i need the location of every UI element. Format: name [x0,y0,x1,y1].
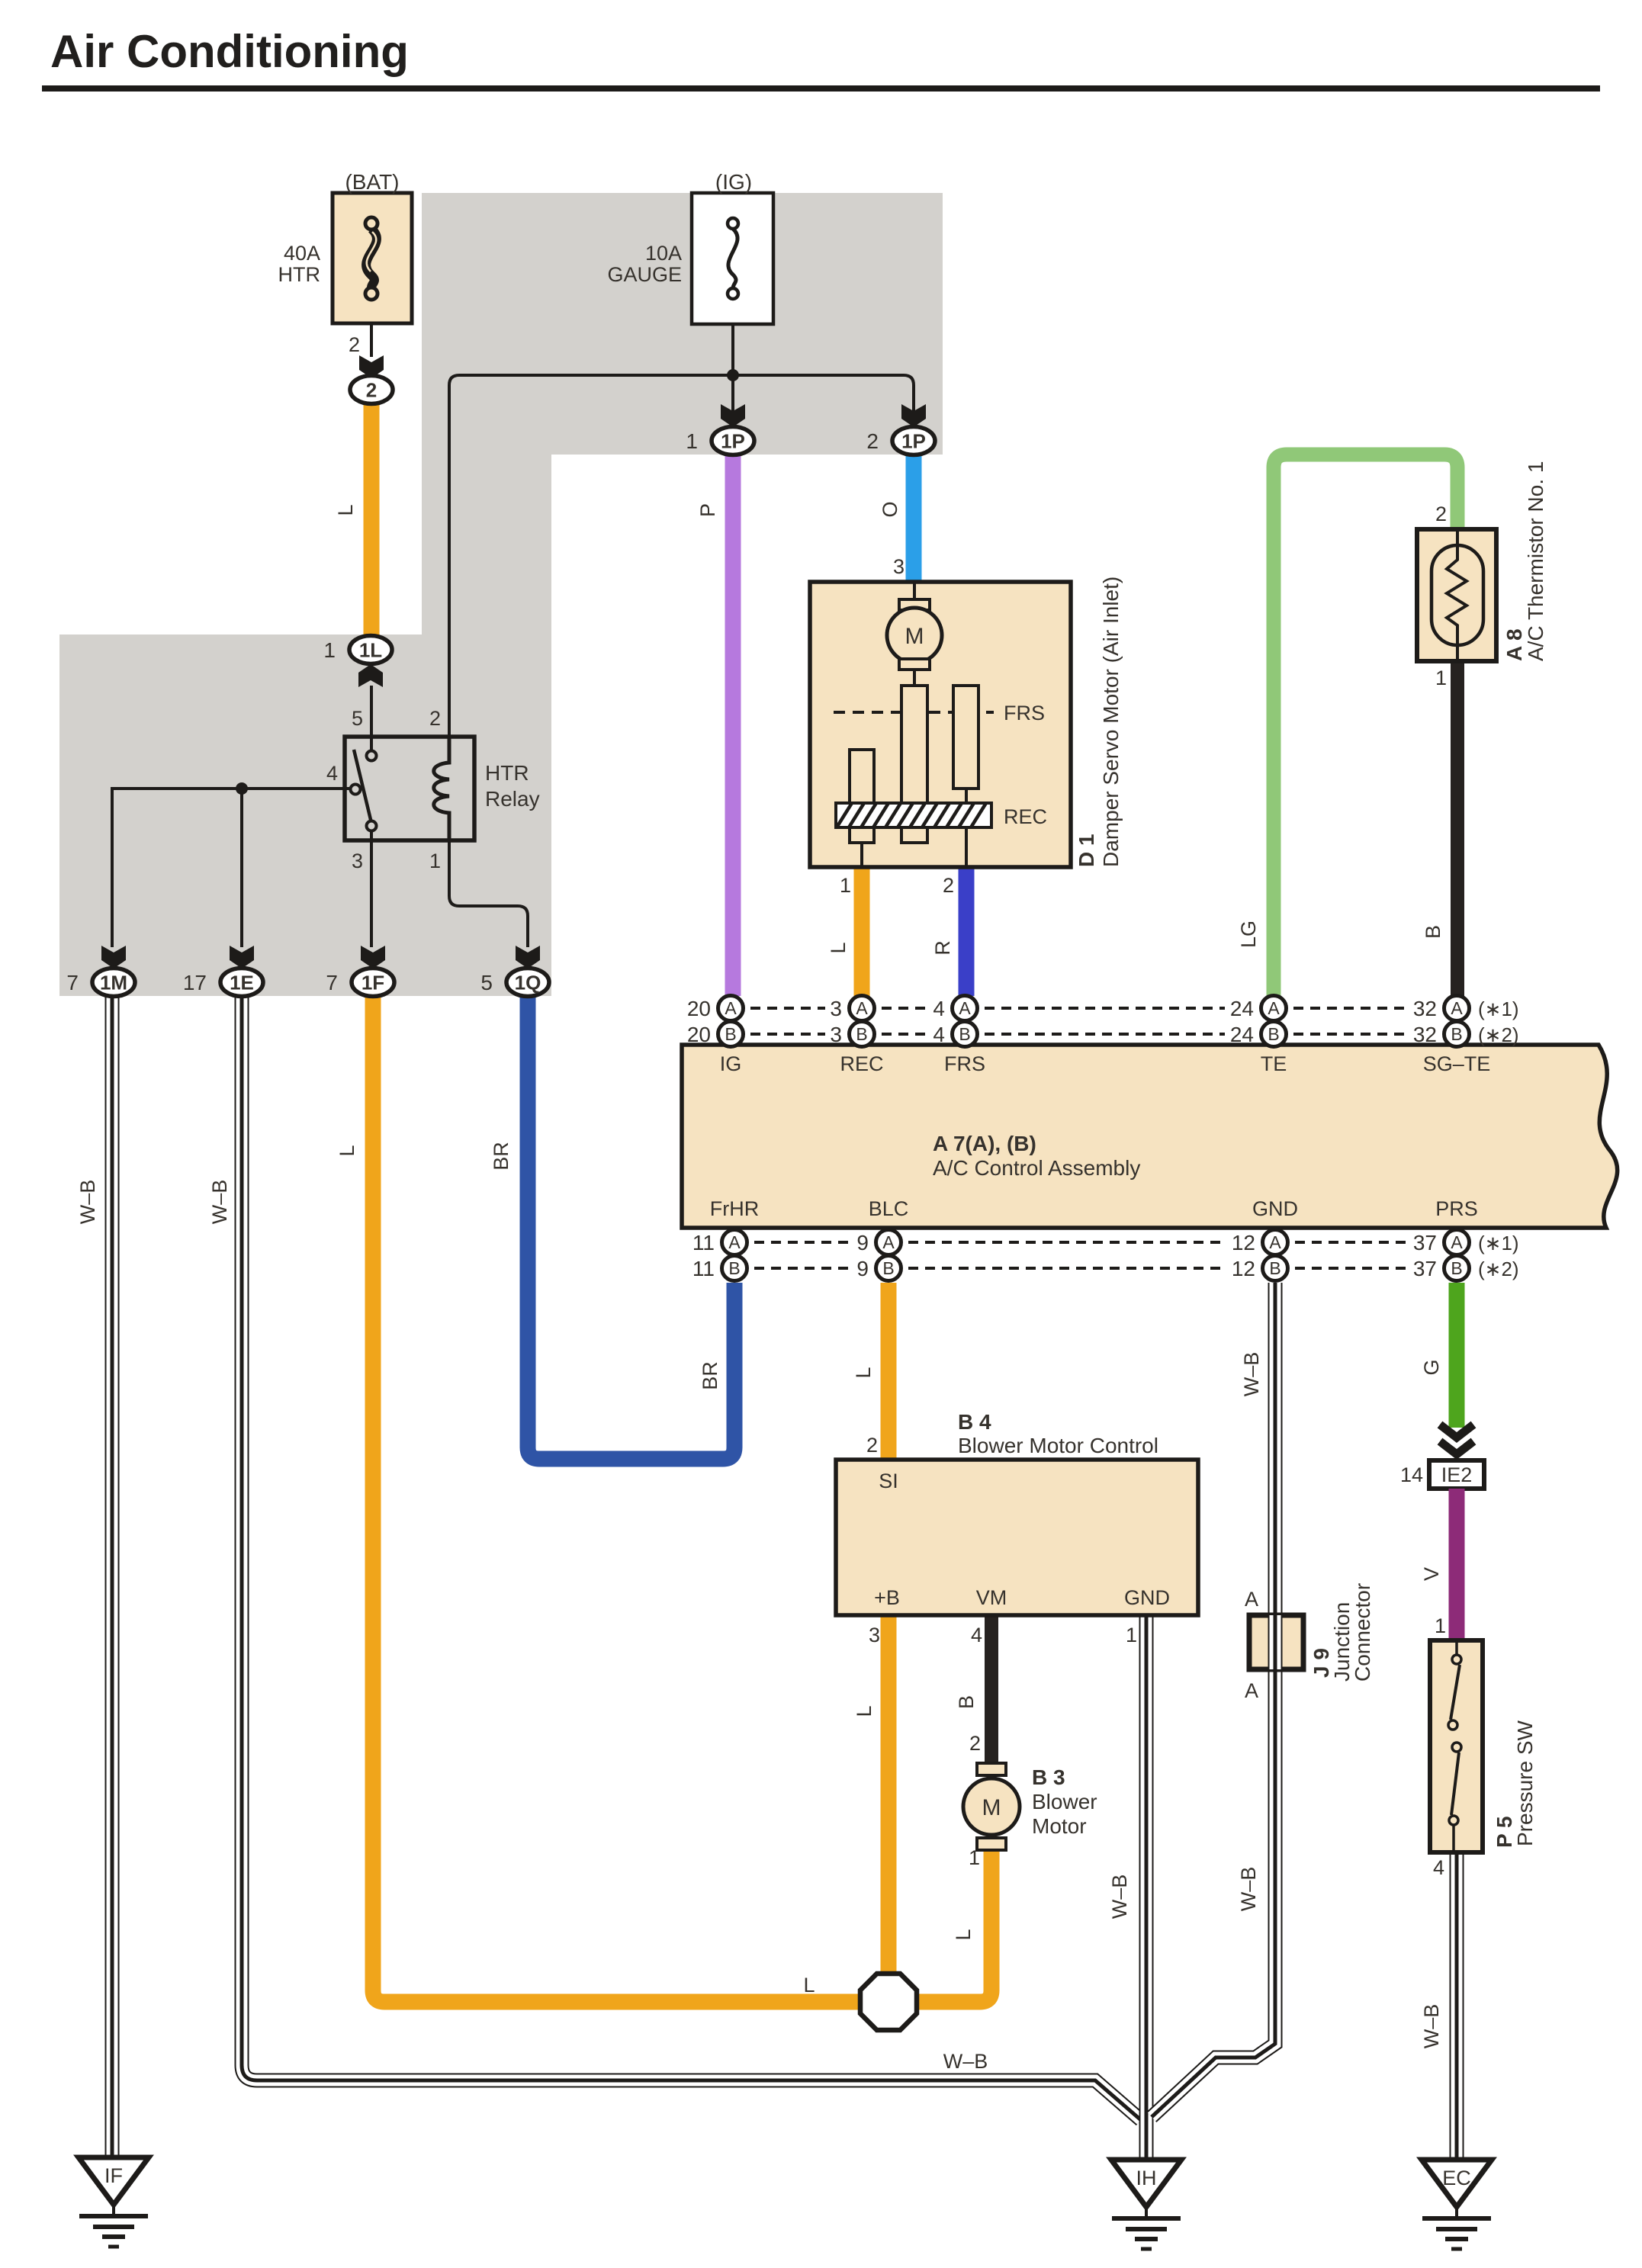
svg-text:(IG): (IG) [715,170,752,194]
svg-text:14: 14 [1400,1463,1423,1486]
svg-text:HTR: HTR [485,761,529,785]
ground IF [79,2157,149,2205]
connector 1P pin 1 [712,427,754,455]
arrow into 1F [361,946,385,969]
svg-text:2: 2 [366,379,377,402]
svg-text:D 1: D 1 [1075,834,1098,867]
arrow into 1L [358,664,383,687]
svg-text:10A: 10A [645,242,682,265]
svg-text:3: 3 [893,555,905,578]
damper servo motor D1 box [810,582,1071,867]
wire V (magenta) IE2 to pressure switch pin 1 [1449,1489,1465,1641]
svg-text:FrHR: FrHR [710,1197,759,1220]
A7 bottom pin 37 circle A [1444,1230,1470,1255]
title: Air Conditioning [42,26,1600,92]
connector 1Q pin 5 [506,969,549,997]
wire: relay pin 3 to 1F [370,828,373,947]
svg-text:V: V [1420,1567,1443,1581]
svg-text:1: 1 [323,638,336,662]
svg-text:B: B [959,1024,970,1044]
svg-text:5: 5 [352,707,363,730]
wire L (orange) A/C control BLC to blower motor control SI [881,1283,897,1460]
svg-text:L: L [803,1974,815,1997]
wire L (orange) blower motor to splice [917,1851,991,2002]
svg-text:B: B [882,1258,894,1278]
svg-text:+B: +B [874,1586,900,1609]
D1 slider left [850,750,874,867]
wire LG (light green) A/C control TE to thermistor pin 2 [1274,455,1457,996]
svg-text:9: 9 [856,1231,869,1254]
svg-text:2: 2 [943,874,954,897]
svg-text:A/C Thermistor No. 1: A/C Thermistor No. 1 [1524,461,1547,661]
svg-text:(∗1): (∗1) [1478,1232,1519,1254]
svg-text:W–B: W–B [943,2050,988,2073]
svg-text:12: 12 [1232,1231,1255,1254]
svg-text:B: B [728,1258,740,1278]
svg-text:1P: 1P [901,430,926,453]
svg-text:7: 7 [326,971,338,994]
svg-text:FRS: FRS [1004,702,1045,724]
splice octagon [860,1974,917,2030]
svg-text:BR: BR [490,1142,513,1171]
A7 bottom pin 11 circle A [722,1230,747,1255]
wire W-B 1M to ground IF [105,996,120,2157]
svg-text:L: L [952,1929,975,1940]
fuse 10A GAUGE (IG) [692,193,773,324]
arrow into 1Q [516,946,540,969]
relay HTR [345,737,474,840]
A7 bottom pin 9 circle A [876,1230,901,1255]
svg-text:L: L [827,942,850,953]
wire L (orange) damper servo pin 1 to A/C control REC [854,867,870,996]
thermistor A8 [1417,529,1496,661]
svg-text:32: 32 [1413,1023,1437,1046]
svg-text:37: 37 [1413,1231,1437,1254]
svg-text:2: 2 [866,429,879,453]
svg-text:A 8: A 8 [1502,628,1526,661]
svg-text:B: B [1451,1258,1462,1278]
svg-text:1P: 1P [721,430,745,453]
wire W-B A/C control GND through junction J9 to ground IH [1152,1283,1275,2117]
svg-text:SG–TE: SG–TE [1423,1052,1491,1075]
svg-text:A/C Control Assembly: A/C Control Assembly [933,1156,1140,1180]
svg-text:2: 2 [969,1732,981,1755]
blower motor B3 [963,1763,1020,1850]
svg-text:EC: EC [1442,2167,1471,2189]
junction dot at IG feed [727,369,739,381]
A7 bottom pin 12 circle A [1263,1230,1288,1255]
wire: 1L to relay pin 5 [370,686,373,752]
svg-text:9: 9 [856,1257,869,1280]
D1 slider right [953,686,978,867]
svg-text:3: 3 [869,1624,880,1646]
svg-text:1: 1 [686,429,698,453]
svg-text:A: A [1269,1232,1281,1252]
A7 top pin 3 circle B [850,1022,875,1047]
svg-text:B: B [955,1695,978,1709]
A7 top row dashed links [750,1007,825,1010]
D1 motor M [887,582,942,686]
svg-text:(BAT): (BAT) [345,170,399,194]
svg-text:BR: BR [699,1361,721,1390]
svg-text:11: 11 [692,1231,715,1254]
fuse 40A HTR (BAT) [333,193,412,323]
junction connector J9 [1249,1615,1303,1669]
svg-text:G: G [1420,1359,1443,1375]
A7 top pin 32 circle A [1444,996,1470,1021]
svg-text:Relay: Relay [485,787,540,811]
svg-text:4: 4 [326,762,338,785]
connector 1L pin 1 [349,636,392,664]
wire W-B 1E down, across and to ground IH [242,996,1141,2120]
svg-text:GND: GND [1124,1586,1170,1609]
svg-text:LG: LG [1237,920,1260,948]
A7 bottom pin 12 circle B [1263,1256,1288,1281]
svg-text:IG: IG [720,1052,742,1075]
svg-text:(∗2): (∗2) [1478,1023,1519,1046]
svg-text:HTR: HTR [278,263,321,286]
svg-text:1L: 1L [359,639,382,662]
svg-text:7: 7 [66,971,79,994]
svg-text:R: R [931,940,954,956]
wire: relay pin 4 to 1M and 1E branch [112,789,350,947]
svg-text:IE2: IE2 [1441,1463,1473,1486]
A7 top pin 4 circle B [953,1022,978,1047]
wire G (green) A/C control PRS to IE2 [1449,1283,1465,1428]
ground IH [1111,2160,1181,2207]
svg-text:1M: 1M [100,972,127,994]
svg-text:4: 4 [971,1624,982,1646]
svg-text:B: B [856,1024,867,1044]
svg-text:A: A [1245,1588,1258,1611]
svg-text:W–B: W–B [208,1180,231,1225]
svg-text:FRS: FRS [944,1052,985,1075]
svg-text:5: 5 [480,971,493,994]
A7 bottom pin 9 circle B [876,1256,901,1281]
A7 bottom row dashed links [754,1241,853,1244]
wire R (royal blue) damper servo pin 2 to A/C control FRS [959,867,975,996]
svg-text:Damper Servo Motor (Air Inlet): Damper Servo Motor (Air Inlet) [1099,577,1123,867]
svg-text:W–B: W–B [1237,1867,1260,1912]
svg-text:REC: REC [1004,805,1047,828]
svg-text:40A: 40A [284,242,320,265]
wire: relay pin 1 to 1Q [449,840,528,947]
arrow into 1P pin 2 [901,404,926,427]
junction dot relay pin4 branch [236,782,248,795]
svg-text:VM: VM [976,1586,1007,1609]
svg-text:P: P [696,503,719,517]
svg-text:20: 20 [687,1023,711,1046]
svg-text:4: 4 [933,997,945,1020]
A7 top pin 24 circle A [1261,996,1287,1021]
svg-text:(∗2): (∗2) [1478,1258,1519,1280]
svg-text:A: A [725,998,737,1018]
connector 1M pin 7 [92,969,135,997]
svg-text:4: 4 [1433,1856,1444,1879]
svg-text:3: 3 [352,850,363,872]
svg-text:Connector: Connector [1351,1583,1374,1682]
wire W-B blower motor control GND to ground IH [1139,1615,1154,2157]
svg-text:B: B [725,1024,736,1044]
svg-text:B 4: B 4 [958,1410,991,1434]
svg-text:L: L [334,504,357,516]
wire BR (blue) 1Q to A/C control FrHR [528,996,734,1459]
A/C control assembly A7 box [682,1045,1618,1228]
svg-text:1Q: 1Q [515,972,541,994]
svg-text:37: 37 [1413,1257,1437,1280]
arrow into 1P pin 1 [721,404,745,427]
svg-text:SI: SI [879,1470,898,1492]
svg-text:A 7(A), (B): A 7(A), (B) [933,1132,1036,1155]
connector 1F pin 7 [352,969,394,997]
svg-text:24: 24 [1230,1023,1254,1046]
J9 wire through [1268,1615,1283,1669]
svg-text:1: 1 [1435,1614,1446,1637]
svg-text:W–B: W–B [1420,2004,1443,2049]
svg-text:IH: IH [1136,2167,1157,2189]
pressure switch P5 [1430,1640,1483,1852]
svg-text:17: 17 [183,971,207,994]
svg-text:L: L [336,1145,358,1156]
chevron arrow into IE2 [1440,1425,1473,1438]
svg-text:M: M [982,1795,1001,1820]
A7 top pin 20 circle A [718,996,744,1021]
A7 top pin 4 circle A [953,996,978,1021]
svg-text:24: 24 [1230,997,1254,1020]
svg-text:2: 2 [866,1434,878,1457]
arrow into connector 2 [359,355,384,378]
D1 FRS dashed line [834,711,994,714]
wire L (orange) fuse connector 2 to 1L [364,403,380,636]
svg-text:3: 3 [830,997,842,1020]
svg-text:A: A [1245,1679,1258,1702]
svg-text:M: M [905,624,924,649]
svg-text:Blower Motor Control: Blower Motor Control [958,1434,1158,1457]
svg-text:W–B: W–B [1240,1352,1263,1397]
svg-text:BLC: BLC [869,1197,909,1220]
svg-text:GND: GND [1252,1197,1298,1220]
svg-text:L: L [852,1367,875,1378]
svg-text:B 3: B 3 [1032,1765,1065,1789]
svg-text:REC: REC [840,1052,883,1075]
A7 bottom pin 37 circle B [1444,1256,1470,1281]
svg-text:12: 12 [1232,1257,1255,1280]
svg-text:A: A [856,998,868,1018]
svg-text:Air Conditioning: Air Conditioning [50,26,409,77]
wire: IG fuse feed, junction and branches to 1P connectors and HTR relay coil [449,324,914,737]
wire B (black) thermistor pin 1 to A/C control SG-TE [1451,661,1464,996]
svg-text:O: O [879,501,901,517]
svg-text:1: 1 [840,874,851,897]
svg-text:A: A [728,1232,741,1252]
svg-text:B: B [1269,1258,1281,1278]
wire P (violet) 1P-1 to A/C control IG [725,455,741,996]
A7 top pin 32 circle B [1444,1022,1470,1047]
wire W-B pressure switch pin 4 to ground EC [1450,1852,1464,2160]
svg-text:2: 2 [1435,503,1447,525]
ground EC [1422,2160,1492,2207]
svg-text:Motor: Motor [1032,1814,1087,1838]
svg-text:A: A [1451,998,1463,1018]
D1 slider middle [901,686,927,843]
blower motor control B4 box [836,1460,1198,1615]
A7 top pin 24 circle B [1261,1022,1287,1047]
A7 top pin 20 circle B [718,1022,744,1047]
svg-text:11: 11 [692,1257,715,1280]
svg-text:1E: 1E [230,972,254,994]
svg-text:Pressure SW: Pressure SW [1513,1720,1537,1846]
wire O (sky blue) 1P-2 to damper servo pin 3 [906,455,922,582]
svg-text:20: 20 [687,997,711,1020]
svg-text:A: A [959,998,971,1018]
wire L (orange) blower motor control +B down to splice [881,1615,897,1975]
svg-text:1: 1 [1126,1624,1137,1646]
svg-text:TE: TE [1261,1052,1287,1075]
connector IE2 [1429,1460,1484,1489]
svg-text:4: 4 [933,1023,945,1046]
svg-text:B: B [1451,1024,1462,1044]
svg-text:W–B: W–B [1108,1874,1131,1919]
connector 1P pin 2 [892,427,935,455]
svg-text:1: 1 [1435,667,1447,689]
svg-text:PRS: PRS [1435,1197,1478,1220]
svg-text:32: 32 [1413,997,1437,1020]
svg-text:B: B [1422,925,1444,939]
svg-text:A: A [1268,998,1280,1018]
connector 1E pin 17 [220,969,263,997]
svg-text:B: B [1268,1024,1279,1044]
connector 2 [350,376,393,404]
wire: 40A HTR fuse pin 2 lead [370,323,373,357]
shaded harness region (grey) [59,193,943,996]
svg-text:3: 3 [830,1023,842,1046]
svg-text:L: L [853,1705,876,1717]
wire B (black) blower motor control VM to blower motor [985,1615,998,1763]
D1 REC hatched bar [836,803,991,827]
svg-text:IF: IF [104,2164,123,2187]
arrow into 1E [230,946,254,969]
svg-text:(∗1): (∗1) [1478,997,1519,1020]
A7 bottom pin 11 circle B [722,1256,747,1281]
A7 top pin 3 circle A [850,996,875,1021]
svg-text:W–B: W–B [76,1180,99,1225]
arrow into 1M [101,946,126,969]
svg-text:GAUGE: GAUGE [607,263,682,286]
svg-text:2: 2 [429,707,441,730]
wire L (orange) 1F down and across to splice [373,996,860,2002]
svg-text:1F: 1F [361,972,384,994]
svg-text:1: 1 [429,850,441,872]
svg-text:2: 2 [349,333,360,356]
svg-text:Blower: Blower [1032,1790,1097,1813]
svg-text:A: A [882,1232,895,1252]
svg-text:A: A [1451,1232,1463,1252]
